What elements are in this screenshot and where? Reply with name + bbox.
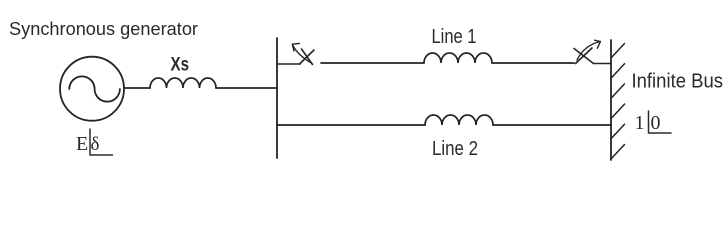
svg-text:E: E <box>76 133 88 155</box>
inductor Xs (generator reactance, 4 humps) <box>150 78 216 88</box>
infinite bus (right vertical bus bar) <box>610 40 612 160</box>
sine wave inside generator <box>69 76 120 101</box>
wire: left bus stub to breaker CB1 <box>277 63 300 65</box>
circuit breaker CB2 (open switch with X) <box>574 40 611 63</box>
label: Line 2 <box>432 138 478 160</box>
inductor L2 (Line 2 reactance, 4 humps) <box>425 115 493 125</box>
label: E angle delta (phasor) <box>76 129 113 155</box>
inductor L1 (Line 1 reactance, 4 humps) <box>424 53 492 63</box>
label: Line 1 <box>432 26 477 48</box>
wire: inductor L2 to infinite bus <box>493 124 611 126</box>
label: 1 angle 0 (phasor) <box>635 111 672 134</box>
label Xs <box>171 54 190 76</box>
svg-text:Synchronous generator: Synchronous generator <box>9 18 198 39</box>
svg-text:δ: δ <box>91 134 100 155</box>
synchronous generator G1 (circle) <box>60 57 124 121</box>
circuit breaker CB1 (open switch with X) <box>292 43 314 64</box>
svg-text:Infinite Bus: Infinite Bus <box>632 71 724 93</box>
wire: left bus to inductor L2 (Line 2) <box>277 124 425 126</box>
wire: generator to reactance Xs <box>124 87 150 89</box>
generator bus (left vertical bus bar) <box>276 38 278 158</box>
svg-text:Xs: Xs <box>171 54 190 76</box>
svg-text:0: 0 <box>651 112 661 134</box>
svg-text:1: 1 <box>635 112 645 134</box>
hatching of infinite bus <box>611 44 625 160</box>
label: Infinite Bus <box>632 71 724 93</box>
wire: reactance Xs to left bus <box>216 87 277 89</box>
wire: inductor L1 to breaker CB2 <box>492 62 574 64</box>
svg-text:Line 2: Line 2 <box>432 138 478 160</box>
wire: breaker CB1 to inductor L1 <box>321 62 424 64</box>
label: Synchronous generator <box>9 18 198 39</box>
svg-text:Line 1: Line 1 <box>432 26 477 48</box>
